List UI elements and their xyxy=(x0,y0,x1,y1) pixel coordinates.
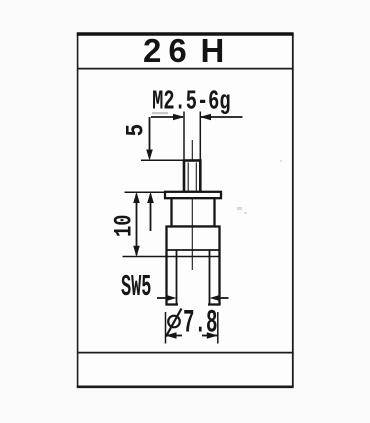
extension line thread right xyxy=(199,112,201,161)
dim 5 upper arrow (points down at thread top line) xyxy=(146,117,153,161)
d7.8 dimension right arrow (points right) xyxy=(202,332,218,338)
svg-text:SW5: SW5 xyxy=(121,270,151,305)
M2.5 dimension line left segment with arrow xyxy=(151,114,185,120)
title box bottom border xyxy=(77,68,294,70)
d7.8 dimension left arrow (points left) xyxy=(165,332,182,338)
dim 10 line with arrows xyxy=(133,192,140,257)
dim 5 text (rotated) xyxy=(122,124,150,137)
dim 10 extension line top xyxy=(125,191,166,193)
d7.8 extension line left xyxy=(165,312,167,344)
svg-text:10: 10 xyxy=(110,215,138,237)
extension line thread top xyxy=(141,159,189,161)
frame left border xyxy=(77,33,79,388)
wrench flat top edge xyxy=(167,249,220,251)
svg-text:H: H xyxy=(201,32,225,69)
SW5 left arrow xyxy=(157,295,177,301)
scan noise speck xyxy=(152,112,168,114)
frame bottom border xyxy=(77,385,294,388)
label SW5 xyxy=(121,270,151,305)
M2.5 dimension line right segment with arrow xyxy=(200,114,243,120)
centerline xyxy=(191,140,193,270)
centerline lower part xyxy=(191,198,193,270)
title box top border xyxy=(77,32,294,36)
dim 5 lower arrow (points up at flange top) xyxy=(147,192,154,231)
flange xyxy=(165,192,221,198)
svg-text:26: 26 xyxy=(143,32,194,69)
wrench flat right edge xyxy=(209,250,211,305)
thread minor diameter lines xyxy=(188,163,196,191)
extension line thread left xyxy=(183,112,185,161)
lower body cylinder (d7.8) xyxy=(165,227,220,305)
thread stud outline xyxy=(184,161,200,193)
footer strip line xyxy=(77,352,294,354)
svg-text:7.8: 7.8 xyxy=(183,305,218,341)
upper body cylinder xyxy=(172,198,215,226)
label d7.8 xyxy=(166,305,218,341)
title text 26 H xyxy=(143,32,224,69)
scan noise speck xyxy=(280,160,282,162)
svg-text:5: 5 xyxy=(122,124,150,137)
wrench flat left edge xyxy=(176,250,178,305)
label M2.5-6g xyxy=(152,87,230,117)
dim 10 extension line bottom xyxy=(123,256,220,258)
dim 10 text (rotated) xyxy=(110,215,138,237)
scan noise speck xyxy=(237,207,247,214)
d7.8 extension line right xyxy=(217,312,219,344)
frame right border xyxy=(292,33,294,388)
SW5 right arrow xyxy=(210,295,229,301)
